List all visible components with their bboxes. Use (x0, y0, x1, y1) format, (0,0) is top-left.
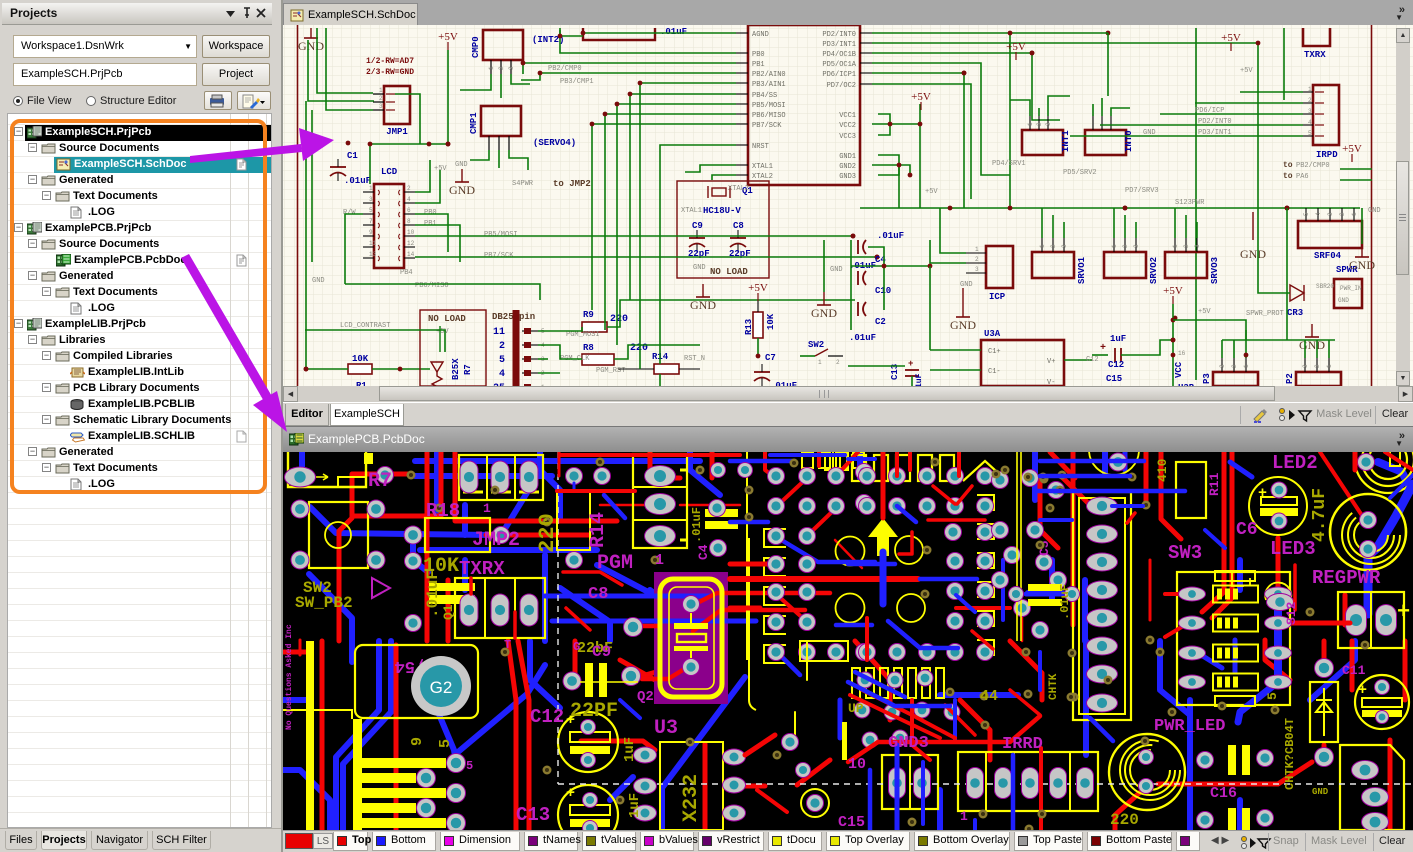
svg-text:GND: GND (298, 39, 324, 53)
svg-text:PGM: PGM (597, 552, 633, 575)
svg-text:SRVO3: SRVO3 (1210, 257, 1220, 284)
svg-text:PGM_MOSI: PGM_MOSI (566, 331, 600, 339)
svg-text:10K: 10K (423, 555, 459, 578)
svg-text:No Questions Asked Inc: No Questions Asked Inc (285, 624, 294, 730)
svg-text:2: 2 (407, 185, 411, 192)
svg-text:C8: C8 (733, 221, 744, 231)
svg-text:PB7/SCK: PB7/SCK (752, 122, 782, 130)
svg-text:11: 11 (369, 240, 377, 247)
svg-text:GND: GND (1368, 207, 1381, 215)
svg-text:1uF: 1uF (622, 737, 638, 762)
svg-text:NO LOAD: NO LOAD (710, 267, 748, 277)
svg-text:7: 7 (369, 218, 373, 225)
svg-text:+5V: +5V (748, 282, 768, 294)
svg-text:U3A: U3A (984, 329, 1001, 339)
svg-text:GND2: GND2 (839, 163, 856, 171)
svg-text:C11: C11 (1342, 663, 1366, 678)
svg-text:REGPWR: REGPWR (1312, 567, 1381, 589)
svg-text:2: 2 (499, 341, 505, 352)
svg-text:SBR20: SBR20 (1316, 283, 1334, 290)
svg-text:JMP1: JMP1 (386, 127, 408, 137)
svg-text:PD7/OC2: PD7/OC2 (827, 82, 856, 90)
svg-text:3: 3 (379, 103, 383, 110)
svg-text:GND3: GND3 (839, 173, 856, 181)
svg-text:to: to (1283, 172, 1293, 181)
svg-text:3: 3 (1061, 244, 1068, 248)
svg-text:VCC2: VCC2 (839, 122, 856, 130)
svg-text:SW2: SW2 (808, 340, 824, 350)
svg-text:to: to (1283, 161, 1293, 170)
svg-text:PD4/SRV1: PD4/SRV1 (992, 160, 1026, 168)
svg-text:4: 4 (407, 196, 411, 203)
svg-text:+5V: +5V (1240, 67, 1253, 75)
svg-text:R14: R14 (587, 512, 610, 548)
svg-text:2: 2 (1050, 244, 1057, 248)
svg-text:C12: C12 (1108, 360, 1124, 370)
svg-text:PB6/MISO: PB6/MISO (752, 112, 786, 120)
svg-text:1: 1 (369, 185, 373, 192)
svg-text:PB1: PB1 (752, 61, 765, 69)
svg-text:R9: R9 (583, 310, 594, 320)
svg-text:ICP: ICP (989, 292, 1006, 302)
svg-text:JMP2: JMP2 (472, 529, 520, 552)
svg-text:3: 3 (975, 266, 979, 273)
svg-text:1: 1 (655, 552, 664, 569)
svg-text:10K: 10K (352, 354, 369, 364)
svg-text:410: 410 (1155, 458, 1170, 482)
svg-text:C13: C13 (516, 804, 550, 826)
svg-text:PD4/OC1B: PD4/OC1B (822, 51, 856, 59)
svg-text:+5V: +5V (1198, 308, 1211, 316)
svg-text:+: + (908, 359, 913, 369)
svg-text:GND3: GND3 (888, 734, 929, 753)
svg-text:CHTK: CHTK (1048, 673, 1060, 700)
svg-text:PWR_LED: PWR_LED (1154, 717, 1225, 736)
svg-text:PB7/SCK: PB7/SCK (484, 252, 514, 260)
svg-text:GND: GND (312, 277, 325, 285)
svg-text:2: 2 (1183, 244, 1190, 248)
svg-text:UP: UP (848, 701, 864, 716)
svg-text:PB4: PB4 (400, 269, 413, 277)
svg-text:CR3: CR3 (1287, 308, 1303, 318)
svg-text:P3: P3 (1202, 373, 1212, 384)
svg-text:PB4/SS: PB4/SS (752, 92, 777, 100)
svg-text:+: + (566, 785, 575, 802)
svg-text:C1-: C1- (988, 368, 1001, 376)
svg-text:PA6: PA6 (1296, 173, 1309, 181)
svg-text:1: 1 (818, 359, 822, 366)
svg-text:PB5/MOSI: PB5/MOSI (752, 102, 786, 110)
svg-text:4: 4 (1308, 119, 1312, 126)
svg-text:GND: GND (1240, 247, 1266, 261)
svg-text:GND: GND (830, 266, 843, 274)
svg-text:PB3/CMP1: PB3/CMP1 (560, 78, 594, 86)
svg-text:PWR_IN: PWR_IN (1340, 285, 1362, 292)
svg-text:6: 6 (407, 207, 411, 214)
svg-text:P2: P2 (1285, 373, 1295, 384)
svg-text:3: 3 (1219, 364, 1226, 368)
svg-text:LCD: LCD (381, 167, 398, 177)
svg-text:9: 9 (409, 737, 426, 746)
svg-text:.01uF: .01uF (1058, 584, 1072, 620)
svg-text:Q1: Q1 (441, 604, 456, 620)
svg-text:1uF: 1uF (1110, 334, 1126, 344)
svg-text:11: 11 (493, 327, 505, 338)
svg-text:V+: V+ (1047, 358, 1055, 366)
svg-text:.01uF: .01uF (690, 507, 704, 543)
svg-text:5: 5 (499, 355, 505, 366)
svg-text:TXRX: TXRX (459, 558, 505, 580)
svg-text:2: 2 (1036, 122, 1043, 126)
svg-text:1: 1 (1308, 86, 1312, 93)
svg-text:+5V: +5V (1342, 143, 1362, 155)
svg-text:+5V: +5V (1163, 285, 1183, 297)
svg-text:SRVO2: SRVO2 (1149, 257, 1159, 284)
svg-text:14: 14 (407, 251, 415, 258)
svg-text:GND: GND (1312, 787, 1329, 797)
svg-text:PD5/OC1A: PD5/OC1A (822, 61, 856, 69)
svg-text:1: 1 (960, 809, 968, 824)
svg-text:C8: C8 (588, 585, 608, 604)
svg-text:+5V: +5V (1221, 32, 1241, 44)
svg-text:5: 5 (466, 759, 473, 773)
svg-text:SPWR_PROT: SPWR_PROT (1246, 310, 1284, 318)
svg-text:R7: R7 (368, 470, 392, 493)
svg-text:1: 1 (1351, 212, 1358, 216)
svg-text:PB5/MOSI: PB5/MOSI (484, 231, 518, 239)
svg-text:4.7uF: 4.7uF (1310, 488, 1330, 542)
svg-text:1: 1 (1027, 122, 1034, 126)
svg-text:C9: C9 (692, 221, 703, 231)
svg-text:C12: C12 (1086, 356, 1099, 364)
svg-text:R18: R18 (426, 500, 460, 522)
svg-text:PD5/SRV2: PD5/SRV2 (1063, 169, 1097, 177)
svg-text:1: 1 (379, 87, 383, 94)
svg-text:R8: R8 (583, 343, 594, 353)
svg-text:B25X: B25X (451, 358, 461, 380)
svg-text:1: 1 (1172, 244, 1179, 248)
svg-text:220: 220 (610, 314, 628, 325)
svg-text:1: 1 (1326, 364, 1333, 368)
svg-text:X232: X232 (680, 774, 703, 822)
svg-text:R7: R7 (463, 364, 473, 375)
svg-text:3: 3 (1308, 108, 1312, 115)
svg-text:Q2: Q2 (637, 689, 654, 705)
svg-text:1uF: 1uF (915, 373, 924, 386)
svg-text:C15: C15 (1106, 374, 1122, 384)
svg-text:LCD_CONTRAST: LCD_CONTRAST (340, 322, 390, 330)
svg-text:2: 2 (1122, 244, 1129, 248)
svg-text:C16: C16 (1210, 785, 1237, 802)
svg-text:INT1: INT1 (1061, 130, 1071, 152)
svg-text:4: 4 (499, 369, 505, 380)
svg-text:PB2/AIN0: PB2/AIN0 (752, 71, 786, 79)
svg-text:HC18U-V: HC18U-V (703, 206, 741, 216)
svg-text:1: 1 (1111, 244, 1118, 248)
svg-text:XTAL1: XTAL1 (681, 207, 702, 215)
svg-text:3: 3 (1194, 244, 1201, 248)
svg-text:10: 10 (407, 229, 415, 236)
svg-text:GND: GND (455, 161, 468, 169)
svg-text:IRPD: IRPD (1316, 150, 1338, 160)
svg-text:SRF04: SRF04 (1314, 251, 1342, 261)
svg-text:3: 3 (508, 66, 515, 70)
svg-text:AGND: AGND (752, 31, 769, 39)
svg-text:GND1: GND1 (839, 153, 856, 161)
svg-text:13: 13 (369, 251, 377, 258)
svg-text:LED3: LED3 (1270, 538, 1316, 560)
svg-text:3: 3 (369, 196, 373, 203)
svg-text:3: 3 (1133, 244, 1140, 248)
svg-text:XTAL2: XTAL2 (752, 173, 773, 181)
svg-text:U3: U3 (654, 717, 678, 740)
svg-text:+5V: +5V (911, 91, 931, 103)
svg-text:+5V: +5V (1006, 41, 1026, 53)
svg-text:R11: R11 (1207, 472, 1222, 496)
svg-text:V-: V- (1047, 379, 1055, 386)
svg-text:+: + (1258, 485, 1267, 502)
svg-text:5: 5 (1265, 692, 1280, 700)
svg-text:C1+: C1+ (988, 348, 1001, 356)
svg-text:2: 2 (1231, 364, 1238, 368)
svg-text:12: 12 (407, 240, 415, 247)
svg-text:8: 8 (407, 218, 411, 225)
svg-text:XTAL1: XTAL1 (752, 163, 773, 171)
svg-text:44: 44 (980, 688, 998, 705)
svg-text:CMP0: CMP0 (471, 36, 481, 58)
svg-text:3: 3 (1302, 364, 1309, 368)
svg-text:5: 5 (1308, 130, 1312, 137)
svg-text:VCC3: VCC3 (839, 133, 856, 141)
svg-text:5: 5 (1303, 212, 1310, 216)
svg-text:C10: C10 (875, 286, 891, 296)
svg-text:VCC1: VCC1 (839, 112, 856, 120)
svg-text:22PF: 22PF (570, 700, 618, 723)
svg-text:220: 220 (1110, 811, 1139, 829)
svg-text:PD2/INT0: PD2/INT0 (822, 31, 856, 39)
svg-text:2/3-RW=GND: 2/3-RW=GND (366, 68, 414, 77)
svg-text:1: 1 (975, 246, 979, 253)
svg-text:IRRD: IRRD (1002, 735, 1043, 754)
svg-text:1: 1 (1039, 244, 1046, 248)
svg-text:SRVO1: SRVO1 (1077, 256, 1087, 284)
svg-text:S123PWR: S123PWR (1175, 199, 1205, 207)
svg-text:GND: GND (693, 264, 706, 272)
svg-text:C2: C2 (875, 317, 886, 327)
svg-text:+: + (1397, 600, 1410, 625)
svg-text:C12: C12 (530, 706, 564, 728)
svg-text:+5V: +5V (925, 188, 938, 196)
svg-text:C6: C6 (1236, 520, 1258, 540)
svg-text:XTAL2: XTAL2 (728, 185, 749, 193)
svg-text:2: 2 (498, 66, 505, 70)
svg-text:5: 5 (437, 739, 454, 748)
svg-text:+: + (1358, 682, 1367, 699)
svg-text:NRST: NRST (752, 143, 769, 151)
svg-text:2: 2 (379, 95, 383, 102)
svg-text:2: 2 (836, 359, 840, 366)
svg-text:2: 2 (975, 256, 979, 263)
svg-text:.01uF: .01uF (849, 333, 876, 343)
svg-text:GND: GND (950, 318, 976, 332)
svg-text:4: 4 (1315, 212, 1322, 216)
svg-text:TXRX: TXRX (1304, 50, 1326, 60)
svg-text:10: 10 (848, 756, 866, 773)
svg-text:to JMP2: to JMP2 (553, 179, 591, 189)
svg-text:GND: GND (960, 281, 973, 289)
svg-text:1uF: 1uF (627, 793, 643, 818)
svg-text:PD6/ICP1: PD6/ICP1 (822, 71, 856, 79)
svg-text:SW3: SW3 (1168, 542, 1202, 564)
svg-text:1: 1 (483, 501, 491, 516)
svg-text:INT0: INT0 (1124, 130, 1134, 152)
svg-text:NO LOAD: NO LOAD (428, 314, 466, 324)
svg-text:RST_N: RST_N (684, 355, 705, 363)
svg-text:C1: C1 (347, 151, 358, 161)
svg-text:1: 1 (1243, 364, 1250, 368)
svg-text:1: 1 (488, 66, 495, 70)
svg-text:GND: GND (811, 306, 837, 320)
svg-text:GND: GND (690, 298, 716, 312)
svg-text:2: 2 (1308, 97, 1312, 104)
svg-text:SW_PB2: SW_PB2 (295, 594, 353, 612)
svg-text:1/2-RW=AD7: 1/2-RW=AD7 (366, 57, 414, 66)
svg-text:2: 2 (1314, 364, 1321, 368)
svg-text:2: 2 (1339, 212, 1346, 216)
svg-text:PD7/SRV3: PD7/SRV3 (1125, 187, 1159, 195)
svg-text:(SERVO4): (SERVO4) (533, 138, 576, 148)
svg-text:PB2/CMP0: PB2/CMP0 (548, 65, 582, 73)
svg-text:CHTK?CB04T: CHTK?CB04T (1283, 718, 1297, 790)
svg-text:G: G (573, 640, 580, 654)
svg-text:.01uF: .01uF (877, 231, 904, 241)
svg-text:GND: GND (1338, 297, 1349, 304)
svg-text:5: 5 (369, 207, 373, 214)
svg-text:S12: S12 (1284, 601, 1299, 625)
svg-text:C15: C15 (838, 814, 865, 830)
svg-text:+: + (1100, 343, 1106, 354)
svg-text:CMP1: CMP1 (469, 112, 479, 134)
svg-text:220: 220 (535, 513, 560, 553)
svg-text:GND: GND (449, 183, 475, 197)
svg-text:9: 9 (369, 229, 373, 236)
svg-text:C9: C9 (592, 643, 611, 661)
svg-text:PB0: PB0 (752, 51, 765, 59)
svg-text:PB3/AIN1: PB3/AIN1 (752, 81, 786, 89)
svg-text:G2: G2 (430, 678, 453, 697)
svg-text:T: T (504, 638, 511, 652)
svg-text:C4: C4 (696, 544, 711, 560)
svg-text:3: 3 (1045, 122, 1052, 126)
svg-text:PD3/INT1: PD3/INT1 (822, 41, 856, 49)
svg-text:PB0: PB0 (424, 209, 437, 217)
svg-text:.01uF: .01uF (660, 27, 687, 37)
svg-text:PB2/CMP0: PB2/CMP0 (1296, 162, 1330, 170)
svg-text:.01uF: .01uF (344, 176, 371, 186)
svg-text:GND: GND (1349, 258, 1375, 272)
svg-text:LED2: LED2 (1272, 452, 1318, 474)
svg-text:10K: 10K (766, 313, 776, 330)
svg-text:S4PWR: S4PWR (512, 180, 534, 188)
svg-text:16: 16 (1178, 350, 1186, 357)
svg-text:C7: C7 (765, 353, 776, 363)
svg-text:+5V: +5V (438, 31, 458, 43)
svg-text:PB1: PB1 (424, 220, 437, 228)
svg-text:PGM_RST: PGM_RST (596, 367, 625, 375)
svg-text:3: 3 (1327, 212, 1334, 216)
svg-text:VCC: VCC (1174, 361, 1184, 378)
